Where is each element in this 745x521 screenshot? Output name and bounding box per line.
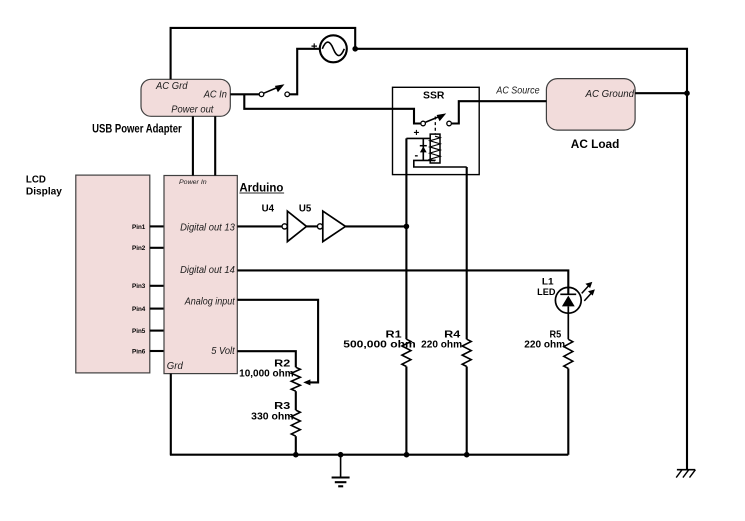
resistor R3 label	[251, 401, 294, 423]
svg-text:+: +	[311, 41, 317, 53]
wire Pin3 stub	[150, 285, 164, 287]
svg-text:Pin5: Pin5	[132, 328, 145, 335]
svg-text:220 ohm: 220 ohm	[421, 340, 462, 351]
wire Digital out 14 to LED branch	[237, 270, 568, 294]
svg-text:USB Power Adapter: USB Power Adapter	[92, 122, 182, 136]
svg-text:10,000 ohm: 10,000 ohm	[239, 368, 294, 379]
svg-text:5 Volt: 5 Volt	[211, 345, 235, 357]
svg-text:+: +	[414, 128, 420, 139]
diode D1 in SSR	[420, 138, 427, 160]
svg-text:Digital out 13: Digital out 13	[180, 221, 235, 233]
potentiometer R2	[291, 367, 300, 391]
wire SSR plus lead down to R1	[405, 138, 407, 339]
AC Load box	[546, 79, 635, 131]
wire Pin1 stub	[150, 225, 164, 227]
svg-text:LCD: LCD	[26, 174, 46, 185]
wire Analog input to R2 wiper	[237, 300, 318, 386]
node junction R4 at bus	[464, 452, 470, 458]
svg-text:AC Load: AC Load	[571, 137, 620, 151]
node junction AC Load to right rail	[684, 90, 690, 96]
svg-text:LED: LED	[537, 287, 555, 298]
node junction ground symbol at bus	[338, 452, 344, 458]
node junction R1 at bus	[404, 452, 410, 458]
node junction at AC source right	[352, 46, 358, 52]
wire top rail from adapter AC Grd to AC source	[171, 28, 356, 79]
switch SW2 terminal 2	[447, 121, 452, 126]
svg-text:Arduino: Arduino	[239, 180, 283, 194]
svg-text:Power out: Power out	[171, 103, 214, 115]
svg-text:Pin6: Pin6	[132, 348, 145, 355]
wire Pin4 stub	[150, 308, 164, 310]
svg-text:Power In: Power In	[179, 179, 207, 186]
resistor R4	[462, 339, 471, 366]
wire Pin6 stub	[150, 350, 164, 352]
svg-text:R3: R3	[274, 401, 291, 412]
LED L1 label	[537, 277, 555, 299]
wire right rail from AC source to earth ground	[355, 49, 687, 470]
svg-text:U5: U5	[299, 204, 312, 215]
svg-text:AC Ground: AC Ground	[585, 88, 635, 100]
wire SSR minus node	[414, 160, 467, 167]
wire AC source left terminal down to switch	[290, 49, 320, 95]
node junction U5 output and R1	[404, 224, 410, 230]
resistor R5 label	[524, 329, 565, 350]
earth ground at right rail	[676, 470, 695, 478]
svg-text:220 ohm: 220 ohm	[524, 340, 565, 351]
wire SW2 to AC Source output	[452, 101, 547, 123]
svg-text:U4: U4	[262, 204, 275, 215]
wire Arduino Grd down	[170, 374, 172, 455]
wire Pin2 stub	[150, 247, 164, 249]
wire Power out to Arduino Power In right	[214, 116, 216, 175]
svg-text:Display: Display	[26, 187, 62, 198]
wire SSR plus node	[406, 137, 430, 139]
USB Power Adapter box	[141, 79, 230, 116]
wire AC Load right to rail	[635, 92, 687, 94]
SSR box	[393, 87, 480, 174]
switch SW1 terminal 1	[259, 92, 264, 97]
svg-text:Pin1: Pin1	[132, 224, 145, 231]
Arduino box	[164, 176, 237, 374]
svg-text:AC Grd: AC Grd	[155, 80, 188, 92]
svg-text:330 ohm: 330 ohm	[251, 411, 294, 422]
buffer U5	[317, 211, 345, 242]
AC source V1	[320, 35, 347, 62]
LED L1 emission arrows	[582, 282, 595, 301]
wire Pin5 stub	[150, 330, 164, 332]
svg-text:Digital out 14: Digital out 14	[180, 264, 235, 276]
resistor R5	[564, 339, 573, 368]
switch SW2 arm	[425, 113, 446, 122]
wire ground bus	[170, 454, 568, 456]
node junction R3 at bus	[293, 452, 299, 458]
Arduino label	[239, 180, 284, 194]
wire R2 to R3	[295, 391, 297, 410]
wire adapter branch to SSR input	[244, 94, 392, 109]
LCD Display label	[26, 174, 62, 197]
wire adapter AC In to switch SW1	[230, 93, 259, 95]
svg-text:AC Source: AC Source	[496, 84, 540, 96]
resistor R1	[402, 339, 411, 366]
wire R5 to ground bus	[567, 369, 569, 455]
wire SSR input to switch SW2	[393, 109, 421, 124]
svg-text:500,000 ohm: 500,000 ohm	[343, 340, 416, 351]
LED L1	[555, 287, 581, 339]
svg-text:AC In: AC In	[203, 89, 227, 101]
wire R1 to ground bus	[405, 367, 407, 455]
switch SW1 arm	[264, 84, 285, 93]
wire U5 output to R1 node	[346, 225, 407, 227]
potentiometer R2 label	[239, 358, 294, 379]
switch SW2 terminal 1	[421, 121, 426, 126]
svg-text:L1: L1	[542, 277, 554, 288]
svg-text:Pin4: Pin4	[132, 306, 145, 313]
switch SW1 terminal 2	[285, 92, 290, 97]
wire Digital out 13 to U4	[237, 225, 282, 227]
svg-text:Grd: Grd	[167, 360, 184, 372]
svg-text:Pin2: Pin2	[132, 245, 145, 252]
relay coil K1 in SSR	[430, 134, 440, 163]
wire R4 to ground bus	[466, 367, 468, 455]
resistor R4 label	[421, 329, 462, 350]
resistor R3	[291, 410, 300, 436]
wire R3 to ground bus	[295, 436, 297, 455]
LCD Display box	[76, 175, 150, 373]
resistor R1 label	[343, 329, 416, 350]
ground	[332, 455, 350, 487]
wire SSR minus lead down to R4	[466, 167, 468, 339]
wire Power out to Arduino Power In left	[192, 116, 194, 175]
wire dashed actuator link	[434, 117, 436, 135]
wire 5 Volt to R2	[237, 351, 295, 367]
svg-text:SSR: SSR	[423, 91, 445, 102]
buffer U4	[282, 211, 307, 242]
svg-text:Analog input: Analog input	[184, 295, 236, 307]
svg-text:Pin3: Pin3	[132, 283, 145, 290]
wire U4 to U5	[307, 225, 318, 227]
